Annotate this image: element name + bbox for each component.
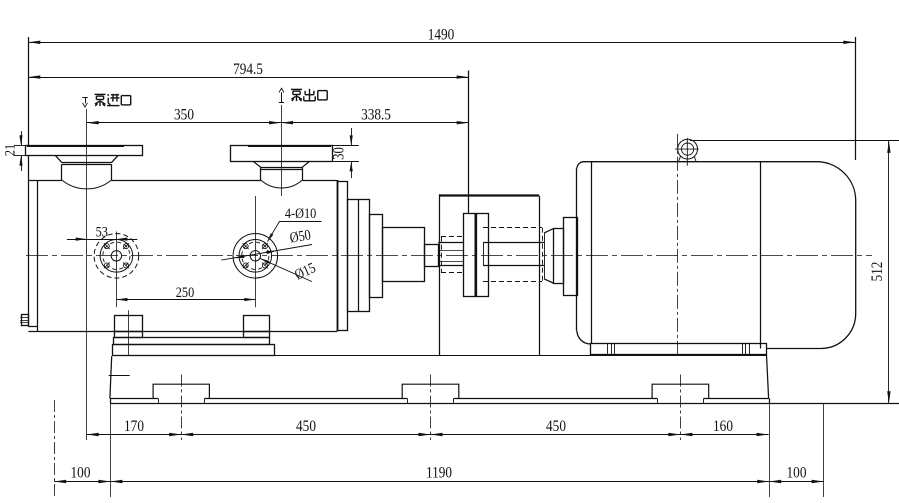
pump body outline <box>28 180 62 182</box>
pump foot right <box>244 316 270 332</box>
svg-text:4-Ø10: 4-Ø10 <box>285 205 317 221</box>
bearing cylinder <box>383 228 425 282</box>
motor front plate <box>564 218 578 296</box>
dimension 512 <box>888 140 890 403</box>
svg-text:100: 100 <box>71 464 91 481</box>
mounting pad 1 centreline <box>181 375 183 441</box>
svg-text:512: 512 <box>869 262 886 282</box>
dimension 160 <box>680 434 768 436</box>
mounting pad 2 <box>402 384 459 398</box>
svg-text:53: 53 <box>96 223 108 239</box>
discharge port hole vertical centreline <box>255 196 257 307</box>
pump shaft into hub <box>438 242 463 244</box>
suction port hole vertical centreline <box>116 232 118 308</box>
svg-text:350: 350 <box>174 106 194 123</box>
mounting pad 1 <box>153 384 209 398</box>
dimension 338.5 line <box>281 122 469 124</box>
inlet centreline <box>86 109 88 440</box>
coupling flange disc motor-side <box>477 214 489 297</box>
label D15 leader <box>260 258 312 281</box>
outlet centreline <box>281 105 283 196</box>
label D50 leader <box>221 245 312 261</box>
motor end-cap seam <box>760 162 762 349</box>
dimension 30 <box>333 145 359 147</box>
dimension 53 <box>67 239 137 241</box>
pump support strip <box>114 338 270 345</box>
pump cover plate <box>28 156 30 327</box>
motor body outline <box>577 162 856 349</box>
coupling bracket <box>439 194 441 355</box>
svg-text:250: 250 <box>176 284 195 300</box>
pump foot left <box>115 316 143 332</box>
pump foot left centreline <box>128 310 130 356</box>
svg-text:160: 160 <box>713 418 733 435</box>
motor foot bolt lines left <box>607 344 609 355</box>
dimension 170 <box>87 434 182 436</box>
svg-text:1190: 1190 <box>426 464 452 481</box>
label pump-inlet (CJK strokes) <box>95 94 106 106</box>
dimension 794.5 line <box>28 77 468 79</box>
dimension 250 <box>116 299 255 301</box>
svg-text:100: 100 <box>787 464 807 481</box>
base frame top line <box>113 355 767 357</box>
bearing housing plate 3 <box>370 215 383 298</box>
inlet flange plate <box>26 146 143 156</box>
bearing housing plate 1 <box>338 182 348 331</box>
outlet volute dome <box>261 180 303 188</box>
coupling flange disc pump-side <box>464 214 476 297</box>
dimension 1490 left extension <box>28 37 30 145</box>
motor-side coupling hub (hidden) <box>483 227 542 229</box>
inlet flow arrow symbol <box>85 97 87 103</box>
outlet flange plate <box>231 146 333 162</box>
svg-text:21: 21 <box>1 144 17 156</box>
svg-text:450: 450 <box>296 418 316 435</box>
base frame right edge <box>769 398 771 403</box>
svg-text:170: 170 <box>124 418 144 435</box>
outlet flow arrow symbol <box>281 92 283 102</box>
pedestal slant edge <box>110 356 112 398</box>
motor shaft <box>483 242 544 244</box>
base frame upper strip <box>110 398 158 400</box>
mounting pad 3 centreline <box>680 375 682 441</box>
eyebolt <box>678 139 698 159</box>
pump shaft step <box>425 245 439 267</box>
dimension 1490 right extension <box>855 37 857 160</box>
label pump-outlet (CJK strokes) <box>291 89 302 101</box>
base frame bottom line <box>110 403 899 405</box>
dimension 1190 <box>110 481 769 483</box>
dimension 450 (first) <box>181 434 430 436</box>
eyebolt top line to 512 extension <box>690 140 899 142</box>
dimension 1490 line <box>28 42 855 44</box>
motor end-bell seam <box>591 162 593 344</box>
left phantom extension line <box>54 400 56 497</box>
svg-text:338.5: 338.5 <box>361 106 391 123</box>
motor shaft collar block <box>554 229 564 284</box>
inlet flange neck <box>55 156 62 163</box>
pump-side coupling hub (hidden) <box>441 236 463 238</box>
dimension 794.5 right extension <box>468 71 470 214</box>
motor feet rail <box>591 344 767 355</box>
svg-text:30: 30 <box>330 147 347 160</box>
bearing housing plate 2 <box>348 200 370 312</box>
motor support slant line <box>767 355 769 398</box>
discharge port hole (right) <box>233 234 278 279</box>
dimension 100 right <box>769 481 823 483</box>
outlet flange neck <box>253 161 261 167</box>
mounting pad 3 <box>652 384 709 398</box>
svg-text:794.5: 794.5 <box>233 61 263 78</box>
coupling gap line <box>475 213 477 297</box>
motor foot bolt lines right <box>742 344 744 355</box>
dimension 21 <box>14 145 25 147</box>
svg-text:450: 450 <box>546 418 566 435</box>
base left edge lower extension <box>110 404 112 497</box>
base frame left edge <box>110 398 112 403</box>
pump pedestal <box>113 345 275 356</box>
suction port hole (left) <box>94 234 139 279</box>
dimension 350 line <box>87 122 281 124</box>
drain plug <box>22 315 29 326</box>
main horizontal centreline <box>26 255 872 257</box>
right phantom extension line <box>823 404 825 497</box>
dimension 100 left <box>54 481 110 483</box>
motor vertical centreline <box>677 134 679 354</box>
base right edge lower extension <box>769 404 771 497</box>
motor shaft cone <box>544 233 546 279</box>
inlet volute dome <box>62 180 112 189</box>
mounting pad 2 centreline <box>430 375 432 441</box>
svg-text:1490: 1490 <box>428 26 455 43</box>
label 4-D10 leader <box>280 221 322 223</box>
dimension 450 (second) <box>431 434 681 436</box>
